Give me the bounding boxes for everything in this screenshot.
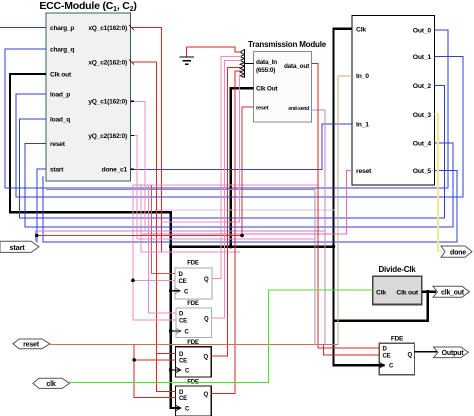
junction clk at FDE1 C xyxy=(169,289,173,293)
wire pink vertical v140 xyxy=(140,185,142,252)
svg-text:Clk Out: Clk Out xyxy=(256,86,278,93)
svg-text:FDE: FDE xyxy=(187,261,199,267)
input port clk xyxy=(33,378,70,388)
wire reset feedback from Out_4 (blue) xyxy=(25,143,453,227)
svg-text:charg_q: charg_q xyxy=(50,46,74,53)
svg-text:start: start xyxy=(9,243,25,252)
wire load_p feedback from Out_1 (blue) xyxy=(16,57,463,197)
svg-text:Out_0: Out_0 xyxy=(413,27,432,34)
svg-text:FDE: FDE xyxy=(391,336,404,343)
svg-text:CE: CE xyxy=(179,279,187,285)
wire faint bus (lavender) xyxy=(155,209,335,211)
svg-text:data_In: data_In xyxy=(256,59,277,66)
wire ground to ripper (red) xyxy=(187,47,241,52)
wire start (blue) xyxy=(37,169,46,243)
wire xQ_c1 (red) xyxy=(131,28,162,252)
svg-text:reset: reset xyxy=(50,141,66,148)
svg-text:Q: Q xyxy=(204,392,209,398)
wire FDE2 D feed (pink) xyxy=(149,185,176,313)
svg-text:end-send: end-send xyxy=(288,106,309,112)
wire reset net (salmon) xyxy=(50,344,338,346)
svg-text:In_1: In_1 xyxy=(356,121,369,128)
wire load_q feedback from Out_2 (blue) xyxy=(20,86,445,219)
decoder block U_DEC xyxy=(352,15,435,185)
junction clk at transmission branch xyxy=(229,245,233,249)
svg-text:yQ_c1(162:0): yQ_c1(162:0) xyxy=(88,99,127,106)
junction reset branch xyxy=(132,358,136,362)
flip-flop FDE2 xyxy=(176,301,212,337)
svg-text:xQ_c2(162:0): xQ_c2(162:0) xyxy=(88,60,127,67)
svg-text:FDE: FDE xyxy=(187,301,199,307)
wire xQ_c2 to FDE3 FDE4 D (red) xyxy=(131,62,176,391)
junction clk at FDE2 C xyxy=(169,329,173,333)
flip-flop FDE1 xyxy=(175,261,212,300)
wire charg_p (blue) xyxy=(0,27,46,29)
wire FDE3 Q to ripper (red) xyxy=(211,67,241,356)
wire grey vertical v314 xyxy=(314,189,316,344)
svg-text:done_c1: done_c1 xyxy=(102,166,128,173)
wire reset branch to FDE3 FDE4 CE (red) xyxy=(134,345,176,398)
wire start to transmission reset (red) xyxy=(37,107,254,236)
wire In_0 from reset net (tan) xyxy=(338,76,352,345)
wire decoder reset port (magenta) xyxy=(141,171,352,234)
port stub done_c1 xyxy=(131,168,135,170)
svg-text:Q: Q xyxy=(204,277,209,283)
wire FDE4 Q to ripper (red) xyxy=(211,71,241,393)
svg-text:reset: reset xyxy=(356,168,372,175)
input port reset xyxy=(13,339,50,349)
svg-text:clk: clk xyxy=(46,381,55,388)
svg-text:charg_p: charg_p xyxy=(50,25,74,32)
input port start xyxy=(0,241,39,252)
svg-text:Out_5: Out_5 xyxy=(413,168,432,175)
wire done_c1 to In_1 (blue) xyxy=(131,124,353,169)
output port done xyxy=(441,246,472,257)
svg-text:done: done xyxy=(450,249,466,256)
wire yQ_c1 (pink) xyxy=(131,101,145,231)
wire pink bus h1 xyxy=(133,184,318,186)
svg-text:Q: Q xyxy=(408,353,413,359)
svg-text:load_q: load_q xyxy=(50,117,70,124)
svg-text:Output: Output xyxy=(442,350,465,357)
junction clk at decoder riser xyxy=(332,245,336,249)
svg-text:ECC-Module (C1, C2): ECC-Module (C1, C2) xyxy=(39,0,136,13)
svg-text:FDE: FDE xyxy=(187,340,199,346)
svg-text:reset: reset xyxy=(256,106,269,112)
svg-text:clk_out: clk_out xyxy=(441,289,465,296)
junction start branch xyxy=(35,234,39,238)
wire pink bus h3 to ripper (pink) xyxy=(162,75,241,222)
svg-text:Clk: Clk xyxy=(376,289,386,296)
wire pink bus h5 xyxy=(141,251,240,253)
bus ripper triangles at data_In xyxy=(240,50,254,78)
svg-text:xQ_c1(162:0): xQ_c1(162:0) xyxy=(88,25,127,32)
svg-text:(655:0): (655:0) xyxy=(256,67,275,74)
wire decoder reset feed (violet) xyxy=(46,188,315,190)
svg-text:Q: Q xyxy=(204,316,209,322)
svg-text:Clk out: Clk out xyxy=(396,289,419,296)
svg-text:Divide-Clk: Divide-Clk xyxy=(378,265,416,274)
junction clk at FDE3 C xyxy=(169,368,173,372)
port stub yQ_c2 xyxy=(131,135,135,137)
svg-text:Out_3: Out_3 xyxy=(413,112,432,119)
junction clk at divide branch xyxy=(426,290,430,294)
svg-text:Q: Q xyxy=(204,355,209,361)
svg-text:load_p: load_p xyxy=(50,92,70,99)
svg-text:CE: CE xyxy=(179,319,187,325)
svg-text:Out_1: Out_1 xyxy=(413,54,432,61)
wire FDE1 FDE2 CE chain (pink) xyxy=(133,185,176,320)
junction CE chain FDE1 xyxy=(131,279,135,283)
wire FDE1 Q to ripper (pink) xyxy=(212,57,241,279)
Divide-Clk block U_DIV xyxy=(373,265,422,305)
ground xyxy=(180,47,195,64)
junction clk at FDE riser xyxy=(169,245,173,249)
output port Output xyxy=(434,347,469,358)
junction transmission reset branch xyxy=(240,234,244,238)
flip-flop FDE3 xyxy=(176,340,212,377)
svg-text:In_0: In_0 xyxy=(356,73,369,80)
wire clk net (green) xyxy=(70,290,373,383)
ECC module block U_ECC xyxy=(39,0,136,181)
port stub yQ_c1 xyxy=(131,100,135,102)
wire Out_5 feedback (blue) xyxy=(43,171,457,243)
svg-text:Clk out: Clk out xyxy=(50,72,72,79)
flip-flop FDE4 xyxy=(176,380,212,416)
svg-text:CE: CE xyxy=(383,353,391,359)
svg-text:CE: CE xyxy=(179,358,187,364)
wire FDE1 D feed (red) xyxy=(152,185,176,274)
svg-text:Out_2: Out_2 xyxy=(413,83,432,90)
svg-text:Clk: Clk xyxy=(356,26,366,33)
svg-text:Out_4: Out_4 xyxy=(413,141,432,148)
svg-text:Transmission Module: Transmission Module xyxy=(248,40,327,49)
Transmission Module block U_TX xyxy=(248,40,327,122)
svg-text:CE: CE xyxy=(179,396,187,402)
wire done from Out_3 (yellow) xyxy=(435,114,442,251)
wire charg_q feedback from Out_0 (blue) xyxy=(5,30,448,188)
svg-text:yQ_c2(162:0): yQ_c2(162:0) xyxy=(88,133,127,140)
output port clk_out xyxy=(433,286,470,297)
wire pink bus h4 xyxy=(137,238,315,240)
svg-text:reset: reset xyxy=(23,342,40,349)
svg-text:start: start xyxy=(50,166,64,173)
wire FDE5 Q to Output (black) xyxy=(415,351,437,353)
wire end-send (violet) xyxy=(312,110,326,345)
flip-flop FDE5 output register xyxy=(379,336,414,375)
wire data_out to FDE5 D (red) xyxy=(312,64,380,348)
wire yQ_c2 to pink bus h4 xyxy=(131,136,137,240)
wire FDE5 CE from reset (red) xyxy=(324,345,380,355)
wire FDE2 Q to ripper (pink) xyxy=(212,60,241,318)
svg-text:data_out: data_out xyxy=(284,63,310,70)
